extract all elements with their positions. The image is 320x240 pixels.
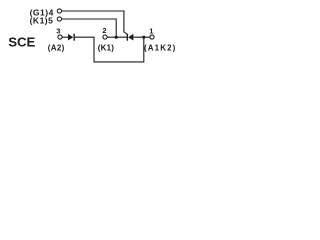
svg-text:(K1): (K1): [98, 43, 114, 52]
terminal 4 circle (G1): [57, 9, 61, 13]
junction dot K1: [115, 36, 118, 39]
wire thyristor anode to terminal 1: [133, 36, 149, 38]
wire gate G1: terminal 4 right, down at x=124, kink to thyristor gate: [62, 11, 127, 34]
terminal 2 circle (K1): [103, 35, 107, 39]
thyristor cathode bar: [127, 34, 128, 41]
svg-text:(A1K2): (A1K2): [144, 43, 176, 52]
diode D2 triangle: [68, 34, 73, 41]
svg-text:1: 1: [149, 26, 153, 35]
svg-text:(A2): (A2): [48, 43, 65, 52]
wire terminal 2 to thyristor cathode: [107, 36, 127, 38]
junction dot A1K2: [142, 36, 145, 39]
wire terminal 3 to diode: [62, 36, 68, 38]
svg-text:SCE: SCE: [8, 34, 35, 49]
terminal 5 circle (K1 aux): [57, 17, 61, 21]
thyristor triangle (pointing left): [128, 34, 133, 41]
background: [0, 0, 188, 68]
svg-text:(K1)5: (K1)5: [30, 15, 54, 25]
wire K1 aux: terminal 5 right, down at x=116 to junction: [62, 19, 116, 37]
terminal 1 circle (A1K2): [150, 35, 154, 39]
wire diode to down-corner: [75, 37, 144, 62]
svg-text:3: 3: [56, 26, 60, 35]
diode D2 cathode bar: [74, 34, 75, 41]
terminal 3 circle (A2): [58, 35, 62, 39]
svg-text:2: 2: [102, 26, 106, 35]
